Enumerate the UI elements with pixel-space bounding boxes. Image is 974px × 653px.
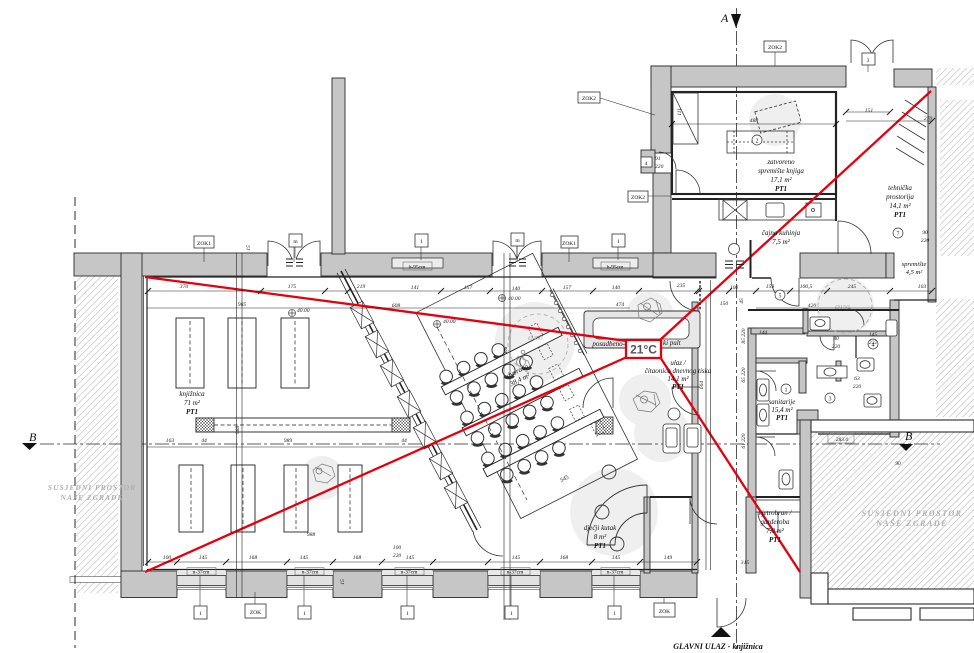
svg-text:100: 100 xyxy=(393,545,402,551)
svg-text:posudbeno-: posudbeno- xyxy=(591,340,625,348)
svg-text:151: 151 xyxy=(865,108,874,114)
svg-text:545: 545 xyxy=(559,474,570,484)
svg-text:145: 145 xyxy=(612,555,621,561)
svg-text:245: 245 xyxy=(848,284,857,290)
svg-text:44: 44 xyxy=(201,438,207,444)
svg-text:157: 157 xyxy=(464,285,473,291)
svg-text:garderoba: garderoba xyxy=(760,518,790,526)
svg-text:Ø150: Ø150 xyxy=(834,304,850,311)
svg-text:m: m xyxy=(515,238,520,244)
svg-text:n-37cm: n-37cm xyxy=(507,570,525,576)
svg-text:220: 220 xyxy=(921,238,930,244)
svg-text:111: 111 xyxy=(677,108,683,116)
svg-text:PT1: PT1 xyxy=(186,408,198,416)
svg-text:B: B xyxy=(29,430,37,444)
svg-text:ZOK1: ZOK1 xyxy=(197,241,211,247)
svg-text:140: 140 xyxy=(512,286,521,292)
svg-text:ZOK: ZOK xyxy=(659,609,670,615)
svg-text:45: 45 xyxy=(739,298,745,304)
svg-text:1: 1 xyxy=(420,239,423,245)
svg-text:n-37cm: n-37cm xyxy=(401,570,419,576)
svg-text:159: 159 xyxy=(766,284,775,290)
svg-text:Ø8: Ø8 xyxy=(503,346,509,354)
svg-text:100: 100 xyxy=(163,555,172,561)
svg-text:7,5 m²: 7,5 m² xyxy=(772,238,791,246)
svg-text:989: 989 xyxy=(284,438,293,444)
svg-text:PT1: PT1 xyxy=(776,414,788,422)
svg-text:prostorija: prostorija xyxy=(885,193,914,201)
svg-text:140: 140 xyxy=(612,285,621,291)
svg-text:1: 1 xyxy=(785,388,788,394)
svg-text:4: 4 xyxy=(645,161,648,167)
svg-text:91: 91 xyxy=(655,156,661,162)
svg-text:145: 145 xyxy=(869,332,878,338)
svg-text:163: 163 xyxy=(166,438,175,444)
svg-text:65 220: 65 220 xyxy=(741,367,747,382)
svg-text:103: 103 xyxy=(918,284,927,290)
svg-text:61 220: 61 220 xyxy=(741,433,747,448)
svg-text:Ø450: Ø450 xyxy=(527,335,543,342)
svg-text:ZOK2: ZOK2 xyxy=(582,96,596,102)
svg-text:220: 220 xyxy=(853,384,862,390)
svg-text:SUSJEDNI PROSTOR: SUSJEDNI PROSTOR xyxy=(862,509,963,518)
svg-text:ZOK: ZOK xyxy=(250,610,261,616)
svg-text:145: 145 xyxy=(406,555,415,561)
svg-text:ki pult: ki pult xyxy=(663,339,682,347)
svg-text:235: 235 xyxy=(677,283,686,289)
svg-text:1: 1 xyxy=(617,239,620,245)
svg-text:988: 988 xyxy=(235,426,241,435)
svg-text:NAŠE ZGRADE: NAŠE ZGRADE xyxy=(60,492,124,502)
svg-text:3: 3 xyxy=(829,397,832,403)
svg-text:PT1: PT1 xyxy=(594,542,606,550)
svg-text:988: 988 xyxy=(307,532,316,538)
svg-text:14,1 m²: 14,1 m² xyxy=(889,202,911,210)
svg-text:150: 150 xyxy=(720,301,729,307)
svg-text:370: 370 xyxy=(179,284,189,290)
svg-text:44: 44 xyxy=(401,438,407,444)
svg-text:15: 15 xyxy=(246,245,252,251)
svg-text:63: 63 xyxy=(854,376,860,382)
svg-text:ZOK1: ZOK1 xyxy=(562,241,576,247)
svg-text:n-37cm: n-37cm xyxy=(302,570,320,576)
svg-text:168: 168 xyxy=(560,555,569,561)
svg-text:sanitarije: sanitarije xyxy=(769,398,796,406)
svg-text:474: 474 xyxy=(616,302,625,308)
svg-text:315: 315 xyxy=(740,560,750,566)
svg-text:17,1 m²: 17,1 m² xyxy=(770,176,792,184)
svg-text:40.00: 40.00 xyxy=(508,296,521,302)
svg-text:220: 220 xyxy=(393,553,402,559)
svg-text:1: 1 xyxy=(510,611,513,617)
svg-text:80: 80 xyxy=(833,336,839,342)
svg-text:knjižnica: knjižnica xyxy=(179,390,205,398)
svg-text:1: 1 xyxy=(406,611,409,617)
svg-text:ulaz /: ulaz / xyxy=(670,359,686,367)
svg-text:145: 145 xyxy=(199,555,208,561)
svg-text:985: 985 xyxy=(238,302,247,308)
svg-text:4,5 m²: 4,5 m² xyxy=(906,269,923,276)
svg-text:40.00: 40.00 xyxy=(297,308,310,314)
svg-text:vjetrobran /: vjetrobran / xyxy=(759,509,793,517)
svg-text:664: 664 xyxy=(699,381,705,390)
svg-text:145: 145 xyxy=(512,555,521,561)
svg-text:145: 145 xyxy=(300,555,309,561)
svg-text:420: 420 xyxy=(808,303,817,309)
svg-text:zatvoreno: zatvoreno xyxy=(766,158,795,166)
svg-text:A: A xyxy=(720,11,729,25)
svg-text:spremište knjiga: spremište knjiga xyxy=(758,167,804,175)
svg-text:b-95cm: b-95cm xyxy=(409,265,427,271)
svg-text:PT1: PT1 xyxy=(672,383,684,391)
svg-text:čitaonica dnevnog tiska: čitaonica dnevnog tiska xyxy=(645,367,712,375)
svg-text:71 m²: 71 m² xyxy=(184,399,201,407)
svg-text:90: 90 xyxy=(922,230,928,236)
svg-text:b-95cm: b-95cm xyxy=(607,265,625,271)
svg-text:100,5: 100,5 xyxy=(800,284,813,290)
svg-text:222: 222 xyxy=(869,340,878,346)
svg-text:175: 175 xyxy=(288,284,297,290)
svg-text:n-37cm: n-37cm xyxy=(607,570,625,576)
svg-text:144: 144 xyxy=(759,330,768,336)
svg-text:PT1: PT1 xyxy=(775,185,787,193)
svg-text:40.00: 40.00 xyxy=(443,319,456,325)
svg-text:dječji kutak: dječji kutak xyxy=(584,524,617,532)
svg-text:n-37cm: n-37cm xyxy=(193,570,211,576)
svg-text:168: 168 xyxy=(249,555,258,561)
svg-text:7: 7 xyxy=(897,232,900,238)
svg-text:1: 1 xyxy=(303,611,306,617)
svg-text:7,0 m²: 7,0 m² xyxy=(766,527,785,535)
svg-text:149: 149 xyxy=(664,555,673,561)
svg-text:ZOK2: ZOK2 xyxy=(631,195,645,201)
svg-text:GLAVNI ULAZ - knjižnica: GLAVNI ULAZ - knjižnica xyxy=(673,642,762,651)
svg-text:5: 5 xyxy=(779,294,782,300)
svg-text:21°C: 21°C xyxy=(630,343,657,357)
svg-text:220: 220 xyxy=(655,164,664,170)
svg-text:219: 219 xyxy=(357,284,366,290)
svg-text:100: 100 xyxy=(730,285,739,291)
svg-text:270: 270 xyxy=(924,116,933,122)
svg-text:157: 157 xyxy=(563,285,572,291)
svg-text:90: 90 xyxy=(895,461,901,467)
svg-text:8 m²: 8 m² xyxy=(594,533,607,541)
svg-text:488: 488 xyxy=(750,118,759,124)
svg-text:SUSJEDNI PROSTOR: SUSJEDNI PROSTOR xyxy=(48,483,136,492)
svg-text:m: m xyxy=(293,239,298,245)
svg-text:ZOK2: ZOK2 xyxy=(768,45,782,51)
svg-text:PT1: PT1 xyxy=(894,211,906,219)
svg-text:15,4 m²: 15,4 m² xyxy=(771,406,793,414)
svg-text:283.0: 283.0 xyxy=(836,437,849,443)
svg-text:141: 141 xyxy=(411,285,420,291)
svg-text:čajna kuhinja: čajna kuhinja xyxy=(762,229,801,237)
svg-text:220: 220 xyxy=(832,344,841,350)
svg-text:2: 2 xyxy=(756,139,759,145)
svg-text:85 220: 85 220 xyxy=(741,328,747,343)
svg-text:1: 1 xyxy=(199,611,202,617)
svg-text:NAŠE ZGRADE: NAŠE ZGRADE xyxy=(875,518,948,528)
svg-text:1: 1 xyxy=(613,611,616,617)
svg-text:14,1 m²: 14,1 m² xyxy=(667,375,689,383)
svg-text:3: 3 xyxy=(867,58,870,64)
svg-text:168: 168 xyxy=(353,555,362,561)
svg-text:PT1: PT1 xyxy=(769,536,781,544)
svg-text:15: 15 xyxy=(340,579,346,585)
svg-text:tehnička: tehnička xyxy=(888,184,912,192)
svg-text:spremište: spremište xyxy=(902,261,927,268)
svg-text:608: 608 xyxy=(392,303,401,309)
